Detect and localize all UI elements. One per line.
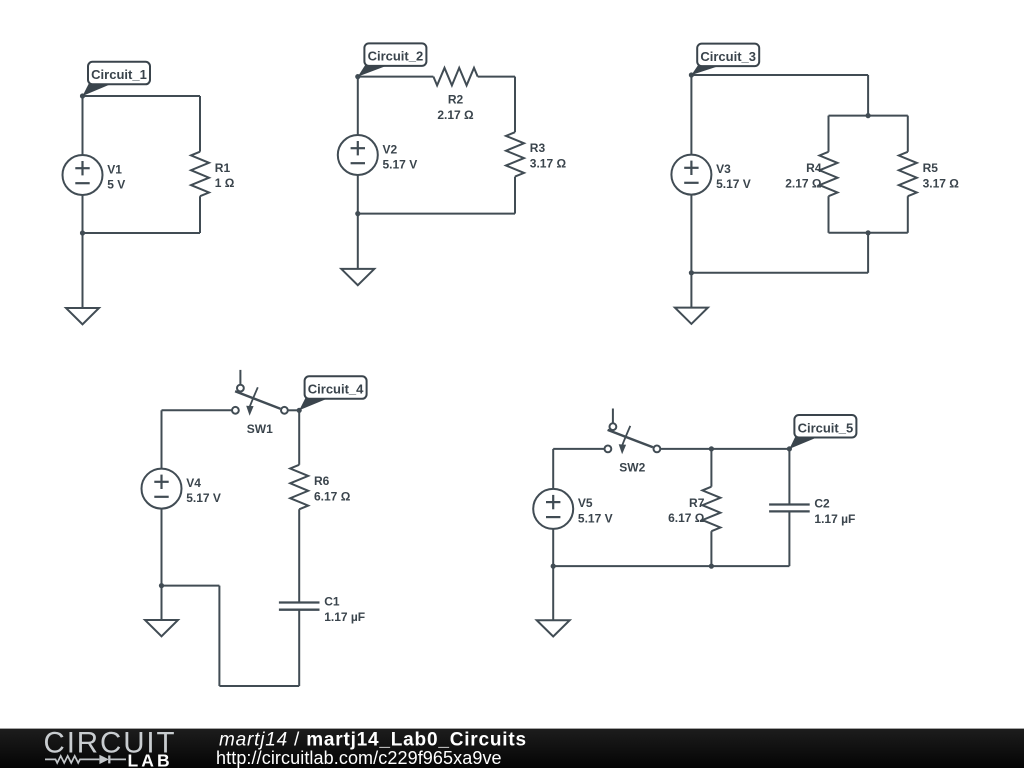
svg-text:Circuit_2: Circuit_2 xyxy=(368,49,424,64)
svg-text:R1: R1 xyxy=(215,161,231,175)
svg-text:http://circuitlab.com/c229f965: http://circuitlab.com/c229f965xa9ve xyxy=(216,748,502,768)
wire: C2 top lead xyxy=(788,449,790,505)
ground (circuit 1) xyxy=(66,308,99,324)
resistor R6 xyxy=(290,465,350,510)
svg-text:Circuit_4: Circuit_4 xyxy=(308,382,364,397)
wire: SW1 common to junction xyxy=(288,409,299,411)
svg-text:R6: R6 xyxy=(314,474,330,488)
svg-text:5.17 V: 5.17 V xyxy=(716,177,751,191)
wire: return to V4 node xyxy=(162,585,220,587)
label Circuit_5 xyxy=(789,415,856,449)
node: R7 top junction xyxy=(709,446,714,451)
wire: R2 to corner xyxy=(478,76,515,78)
svg-text:C2: C2 xyxy=(814,497,830,511)
voltage source V2 xyxy=(338,135,417,175)
svg-text:SW1: SW1 xyxy=(247,422,273,436)
footer background bar xyxy=(0,729,1024,768)
wire: R5 top lead xyxy=(907,116,909,152)
CircuitLab logo resistor-diode squiggle xyxy=(45,755,126,763)
wire: parallel top rail xyxy=(829,115,908,117)
wire: R7 bottom lead xyxy=(710,531,712,566)
node: parallel top junction xyxy=(866,113,871,118)
label Circuit_2 xyxy=(358,43,427,76)
svg-text:3.17 Ω: 3.17 Ω xyxy=(530,157,567,171)
svg-text:5 V: 5 V xyxy=(107,178,125,192)
wire: R5 bottom lead xyxy=(907,196,909,233)
wire: SW2 common to R7 node xyxy=(660,448,711,450)
wire: V1 top lead xyxy=(82,96,84,155)
wire: R7 top lead xyxy=(710,449,712,487)
wire: C2 bottom lead xyxy=(788,511,790,566)
svg-text:2.17 Ω: 2.17 Ω xyxy=(785,176,822,190)
voltage source V1 xyxy=(63,155,126,195)
label Circuit_1 xyxy=(83,62,151,96)
svg-text:V3: V3 xyxy=(716,162,731,176)
svg-text:Circuit_5: Circuit_5 xyxy=(798,420,854,435)
svg-text:V1: V1 xyxy=(107,162,122,176)
svg-text:3.17 Ω: 3.17 Ω xyxy=(923,176,960,190)
wire: C3 top rail xyxy=(691,74,868,76)
voltage source V4 xyxy=(142,469,221,509)
svg-text:5.17 V: 5.17 V xyxy=(578,512,613,526)
voltage source V5 xyxy=(533,489,612,529)
svg-text:Circuit_1: Circuit_1 xyxy=(91,67,147,82)
switch SW1 xyxy=(232,370,288,436)
wire: V5 to SW2 xyxy=(553,448,604,450)
wire: down to parallel top xyxy=(867,75,869,116)
svg-text:R4: R4 xyxy=(806,161,822,175)
svg-text:LAB: LAB xyxy=(128,751,173,768)
wire: R4 bottom lead xyxy=(828,196,830,233)
wire: C5 bottom rail xyxy=(553,565,789,567)
node: parallel bottom junction xyxy=(866,230,871,235)
resistor R5 xyxy=(899,152,959,196)
node: C4 switch junction xyxy=(297,408,302,413)
svg-text:V4: V4 xyxy=(186,476,201,490)
svg-text:V2: V2 xyxy=(383,142,398,156)
wire: V1 bottom lead xyxy=(82,195,84,233)
svg-text:R2: R2 xyxy=(448,93,464,107)
wire: C1 top rail xyxy=(83,95,201,97)
capacitor C1 xyxy=(279,595,365,625)
wire: V3 bottom lead xyxy=(690,195,692,273)
node: C2 bottom-left junction xyxy=(355,211,360,216)
wire: V3 top lead xyxy=(690,75,692,155)
svg-text:5.17 V: 5.17 V xyxy=(186,491,221,505)
wire: R7 node to C2 node xyxy=(711,448,789,450)
resistor R2 xyxy=(433,68,477,122)
wire: C1 bottom rail xyxy=(83,232,201,234)
wire: parallel bottom rail xyxy=(829,232,908,234)
svg-text:R3: R3 xyxy=(530,141,546,155)
node: C1 top-left junction xyxy=(80,93,85,98)
wire: V4 bottom lead / ground stem xyxy=(161,509,163,620)
svg-text:SW2: SW2 xyxy=(619,461,645,475)
ground (circuit 5) xyxy=(537,620,570,636)
wire: C3 bottom rail xyxy=(691,272,868,274)
node: C2 top-left junction xyxy=(355,74,360,79)
label Circuit_4 xyxy=(299,376,366,410)
svg-text:1.17 µF: 1.17 µF xyxy=(814,512,855,526)
svg-text:2.17 Ω: 2.17 Ω xyxy=(437,108,474,122)
node: R7 bottom junction xyxy=(709,564,714,569)
svg-text:R5: R5 xyxy=(923,161,939,175)
svg-text:C1: C1 xyxy=(324,595,340,609)
resistor R1 xyxy=(191,152,235,197)
svg-text:V5: V5 xyxy=(578,496,593,510)
switch SW2 xyxy=(605,409,661,475)
wire: V4 top lead xyxy=(161,410,163,468)
ground (circuit 3) xyxy=(675,308,708,324)
wire: up return xyxy=(218,586,220,686)
svg-text:Circuit_3: Circuit_3 xyxy=(700,49,756,64)
ground (circuit 2) xyxy=(341,269,374,285)
wire: ground stem xyxy=(82,233,84,308)
wire: R4 top lead xyxy=(828,116,830,152)
wire: down from parallel bottom xyxy=(867,233,869,273)
node: C2 top junction xyxy=(787,446,792,451)
wire: R3 bottom lead xyxy=(514,177,516,214)
label Circuit_3 xyxy=(691,44,759,75)
wire: R6 to C1 cap xyxy=(298,509,300,602)
node: C1 bottom-left junction xyxy=(80,230,85,235)
wire: V2 bottom lead xyxy=(357,175,359,214)
svg-text:R7: R7 xyxy=(689,496,705,510)
wire: C2 top-left rail xyxy=(358,76,434,78)
svg-text:1 Ω: 1 Ω xyxy=(215,176,235,190)
svg-text:1.17 µF: 1.17 µF xyxy=(324,610,365,624)
resistor R7 xyxy=(668,487,720,532)
wire: V2 top lead xyxy=(357,77,359,135)
wire: ground stem xyxy=(357,214,359,269)
node: C4 bottom junction xyxy=(159,583,164,588)
ground (circuit 4) xyxy=(145,620,178,636)
node: C5 bottom-left junction xyxy=(551,564,556,569)
wire: R3 top lead xyxy=(514,77,516,133)
wire: C1 bottom lead xyxy=(298,610,300,686)
capacitor C2 xyxy=(769,497,855,527)
wire: V5 bottom lead / ground stem xyxy=(552,529,554,620)
wire: V4 to SW1 xyxy=(162,409,233,411)
node: C3 bottom-left junction xyxy=(689,270,694,275)
svg-text:6.17 Ω: 6.17 Ω xyxy=(314,489,351,503)
voltage source V3 xyxy=(671,155,750,195)
wire: bottom return xyxy=(219,685,299,687)
svg-text:6.17 Ω: 6.17 Ω xyxy=(668,511,705,525)
wire: V5 top lead xyxy=(552,449,554,489)
node: C3 top-left junction xyxy=(689,72,694,77)
wire: C2 bottom rail xyxy=(358,213,515,215)
resistor R3 xyxy=(506,132,566,176)
wire: R6 top lead xyxy=(298,410,300,465)
wire: ground stem xyxy=(690,273,692,308)
wire: R1 bottom lead xyxy=(199,196,201,233)
wire: R1 top lead xyxy=(199,96,201,152)
resistor R4 xyxy=(785,152,837,196)
svg-text:5.17 V: 5.17 V xyxy=(383,158,418,172)
